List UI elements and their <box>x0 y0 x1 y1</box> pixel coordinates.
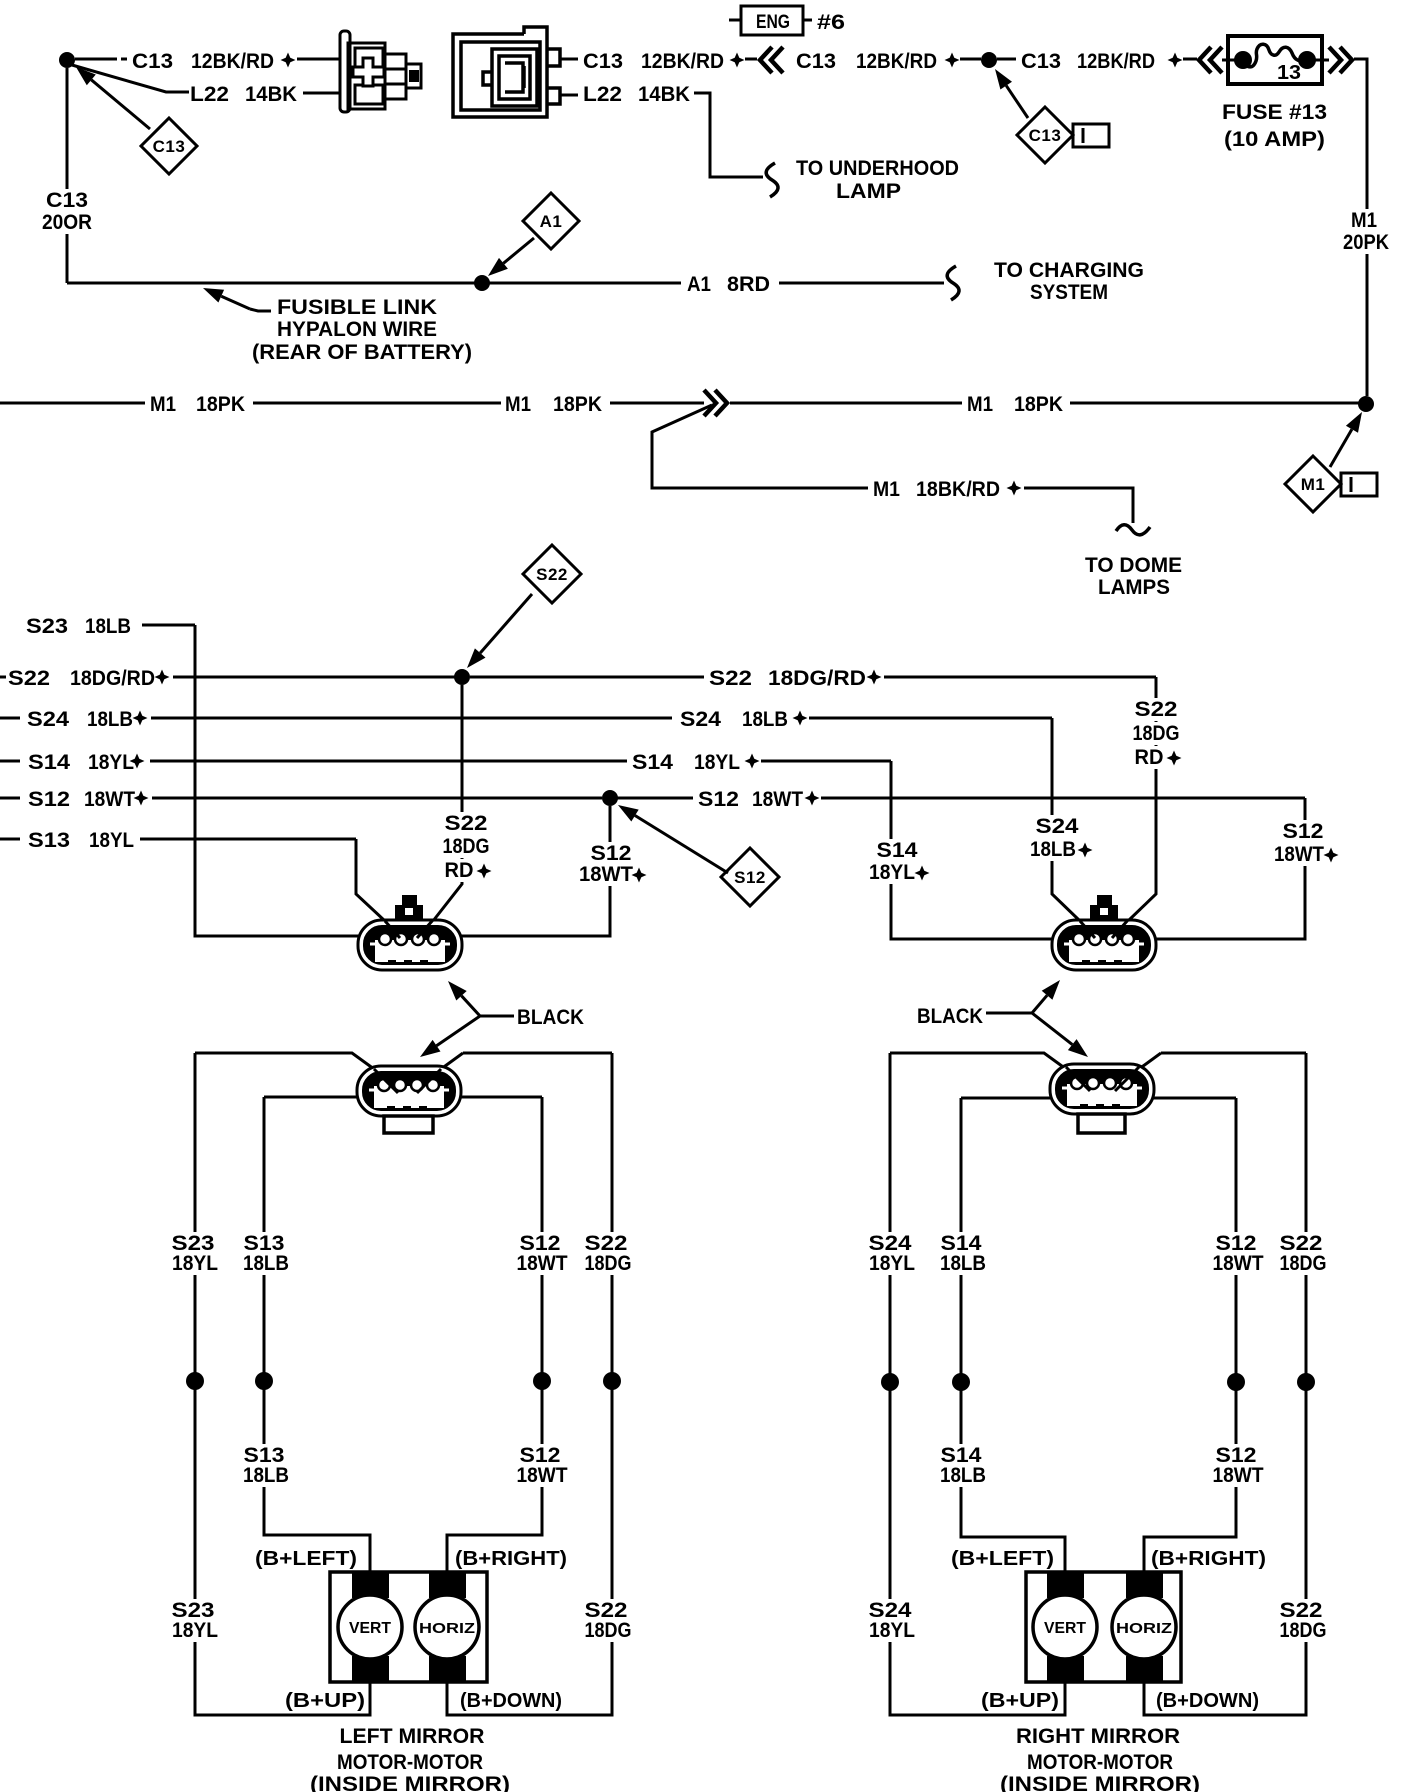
svg-text:18DG: 18DG <box>1133 722 1180 745</box>
connector callout M1 diamond with cavity box <box>1285 456 1341 512</box>
svg-text:18PK: 18PK <box>553 393 602 416</box>
connector B1R (mirror harness, right, black) <box>1090 905 1118 921</box>
svg-text:M1: M1 <box>967 393 993 416</box>
motor M-right (right mirror motor) <box>1026 1572 1181 1682</box>
leader arrow to S12 splice <box>618 805 728 873</box>
svg-text:13: 13 <box>1277 62 1301 84</box>
splice symbol <box>281 53 296 68</box>
motor M-left (left mirror motor) <box>330 1572 487 1682</box>
svg-text:L22: L22 <box>190 83 229 106</box>
motor VERT (right) <box>1033 1595 1097 1659</box>
svg-text:18PK: 18PK <box>1014 393 1063 416</box>
splice callout S22 diamond <box>523 545 581 603</box>
wire label S14 18YL (right drop) <box>872 839 921 862</box>
connector B2R (mirror side, right) <box>1050 1064 1154 1114</box>
wire S24 run to right drop <box>809 717 1052 720</box>
wire S22 run between splice and label <box>470 676 704 679</box>
svg-text:S13: S13 <box>28 829 70 852</box>
leader arrow to S22 splice <box>467 594 532 668</box>
node junction at C13 splice <box>981 52 997 68</box>
wire S13 18LB left inner drop <box>264 1097 370 1572</box>
svg-text:S24: S24 <box>1036 815 1079 838</box>
wire S23 18YL left outer drop <box>195 1053 370 1715</box>
connector tag ENG #6 <box>729 19 812 22</box>
svg-text:M1: M1 <box>873 478 900 501</box>
wire label S14 18LB column <box>936 1232 985 1255</box>
svg-text:(INSIDE MIRROR): (INSIDE MIRROR) <box>310 1773 510 1792</box>
leader arrow fusible link <box>203 288 250 309</box>
leader arrow to connector A lower <box>420 1016 480 1057</box>
wire label S24 18YL lower <box>864 1599 915 1622</box>
leader arrow to connector B upper <box>1032 980 1060 1013</box>
motor HORIZ (right) <box>1112 1595 1176 1659</box>
svg-text:(B+UP): (B+UP) <box>981 1690 1059 1712</box>
wire S24 drop to connector B <box>1052 718 1080 921</box>
svg-text:18WT: 18WT <box>517 1252 568 1275</box>
svg-text:S22: S22 <box>1135 698 1178 721</box>
svg-text:L22: L22 <box>583 83 622 106</box>
node junction M1 at fuse drop <box>1358 396 1374 412</box>
wire S24 18YL right outer drop <box>890 1053 1065 1715</box>
node junction S12 splice <box>602 790 618 806</box>
wire <box>745 58 757 61</box>
svg-text:A1: A1 <box>540 212 563 231</box>
wire to underhood lamp <box>694 93 763 177</box>
svg-text:18LB: 18LB <box>243 1464 289 1487</box>
connector A2L (mirror side, left) <box>357 1066 461 1116</box>
svg-text:C13: C13 <box>583 50 623 73</box>
wire S14 run to right drop <box>761 760 891 763</box>
svg-text:18LB: 18LB <box>940 1252 986 1275</box>
svg-text:RIGHT MIRROR: RIGHT MIRROR <box>1016 1725 1180 1748</box>
splice symbol <box>730 53 745 68</box>
svg-text:S22: S22 <box>709 667 752 690</box>
svg-text:RD: RD <box>445 859 474 882</box>
wire stub S13 18YL <box>0 838 20 841</box>
wire S14 18LB right inner drop <box>961 1098 1065 1572</box>
svg-text:S12: S12 <box>734 868 766 887</box>
wire S14 drop to connector B <box>891 761 1062 939</box>
wire label S12 18WT column <box>516 1232 565 1255</box>
wire label S22 18DG column <box>1276 1232 1327 1255</box>
svg-text:FUSE #13: FUSE #13 <box>1222 101 1327 124</box>
fuse element squiggle <box>1243 44 1307 67</box>
splice symbol <box>945 53 960 68</box>
svg-text:(10 AMP): (10 AMP) <box>1224 128 1325 151</box>
wire S12 drop to connector B <box>1146 798 1305 939</box>
svg-text:S12: S12 <box>591 842 632 865</box>
svg-text:LAMP: LAMP <box>836 180 901 203</box>
wire stub S22 18DG/RD <box>0 676 6 679</box>
svg-text:ENG: ENG <box>756 12 790 33</box>
svg-text:18WT: 18WT <box>579 863 633 886</box>
wire S23 drop to connector A <box>195 625 368 936</box>
svg-text:18WT: 18WT <box>517 1464 568 1487</box>
svg-text:18DG/RD: 18DG/RD <box>768 667 866 690</box>
svg-text:18YL: 18YL <box>172 1619 218 1642</box>
svg-text:18DG: 18DG <box>585 1619 632 1642</box>
svg-text:(B+DOWN): (B+DOWN) <box>460 1690 562 1712</box>
svg-text:18LB: 18LB <box>85 615 131 638</box>
wire label C13 20OR <box>42 189 92 212</box>
wire from fuse down to M1 line <box>1354 59 1367 396</box>
wire <box>960 58 981 61</box>
leader arrow to junction <box>995 69 1028 118</box>
leader arrow to junction <box>1330 412 1362 467</box>
wire S12 run to right drop <box>821 797 1305 800</box>
svg-text:HORIZ: HORIZ <box>419 1620 475 1637</box>
wire S13 drop to connector A <box>356 839 385 921</box>
svg-text:18LB: 18LB <box>1030 838 1076 861</box>
node splice at battery feed <box>59 52 75 68</box>
junction dot <box>186 1372 204 1390</box>
svg-text:14BK: 14BK <box>245 83 297 106</box>
svg-text:S14: S14 <box>877 839 918 862</box>
svg-text:14BK: 14BK <box>638 83 690 106</box>
wire M1 18BK/RD branch <box>652 405 868 488</box>
svg-text:M1: M1 <box>1301 475 1326 494</box>
svg-text:A1: A1 <box>687 273 711 296</box>
wire label S12 18WT (right drop) <box>1278 820 1327 843</box>
svg-text:18YL: 18YL <box>869 1252 915 1275</box>
in-line connector chevron (right) <box>1329 47 1352 73</box>
svg-text:#6: #6 <box>817 11 845 34</box>
wire stub from connector <box>560 94 578 97</box>
splice callout S12 diamond <box>721 848 779 906</box>
svg-text:S12: S12 <box>1283 820 1324 843</box>
svg-text:18WT: 18WT <box>1274 843 1324 866</box>
svg-text:M1: M1 <box>150 393 176 416</box>
in-line connector chevron (right) <box>704 390 727 416</box>
svg-text:FUSIBLE LINK: FUSIBLE LINK <box>277 296 437 319</box>
connector A1L (mirror harness, left, black) <box>395 905 423 921</box>
svg-text:18YL: 18YL <box>89 829 134 852</box>
svg-text:M1: M1 <box>505 393 531 416</box>
wire stub from connector <box>560 58 578 61</box>
svg-text:12BK/RD: 12BK/RD <box>1077 50 1155 73</box>
svg-text:18LB: 18LB <box>742 708 788 731</box>
wire S12 18WT left inner-right drop <box>447 1097 542 1572</box>
svg-text:C13: C13 <box>796 50 836 73</box>
svg-text:S22: S22 <box>8 667 50 690</box>
svg-text:(B+UP): (B+UP) <box>285 1690 365 1712</box>
wire M1 18PK main run <box>0 402 145 405</box>
junction dot <box>1227 1373 1245 1391</box>
wire dash from splice to C13 label <box>75 58 127 61</box>
svg-text:C13: C13 <box>153 137 186 156</box>
svg-text:S24: S24 <box>680 708 721 731</box>
svg-text:12BK/RD: 12BK/RD <box>191 50 274 73</box>
svg-text:18DG: 18DG <box>1280 1252 1327 1275</box>
fuse F13 (10 AMP) <box>1228 36 1322 84</box>
svg-text:18WT: 18WT <box>752 788 803 811</box>
wire label S22 18DG lower <box>1276 1599 1327 1622</box>
svg-text:C13: C13 <box>1029 126 1062 145</box>
svg-text:18DG/RD: 18DG/RD <box>70 667 155 690</box>
svg-text:18DG: 18DG <box>585 1252 632 1275</box>
wire <box>997 58 1016 61</box>
svg-text:18YL: 18YL <box>869 861 915 884</box>
svg-text:18WT: 18WT <box>1213 1252 1264 1275</box>
svg-text:(B+LEFT): (B+LEFT) <box>255 1548 357 1570</box>
svg-text:18YL: 18YL <box>88 751 134 774</box>
svg-text:18WT: 18WT <box>84 788 135 811</box>
wire to connector <box>303 92 340 95</box>
wire S13 18YL run <box>140 838 356 841</box>
wire label S23 18YL lower <box>168 1599 219 1622</box>
svg-text:TO DOME: TO DOME <box>1085 554 1182 577</box>
svg-text:18DG: 18DG <box>1280 1619 1327 1642</box>
svg-text:18DG: 18DG <box>443 835 490 858</box>
circuit-continues squiggle <box>1116 525 1150 535</box>
wire C13 20OR vertical <box>66 68 69 283</box>
circuit-continues squiggle <box>766 163 778 197</box>
svg-text:(B+LEFT): (B+LEFT) <box>951 1548 1054 1570</box>
svg-text:18WT: 18WT <box>1213 1464 1264 1487</box>
wire label S22 18DG RD (right drop) <box>1130 698 1181 721</box>
svg-text:(INSIDE MIRROR): (INSIDE MIRROR) <box>1000 1773 1200 1792</box>
svg-text:(B+DOWN): (B+DOWN) <box>1156 1690 1259 1712</box>
splice symbol <box>1168 53 1183 68</box>
svg-text:BLACK: BLACK <box>917 1005 983 1028</box>
wire S22 drop to connector B <box>1128 677 1156 921</box>
wire frame into connector B2R <box>890 1053 1066 1069</box>
wire label S13 18LB mid <box>240 1444 289 1467</box>
wire S22 18DG/RD run <box>173 676 458 679</box>
wire label S12 18WT mid <box>1212 1444 1261 1467</box>
node junction A1 tap <box>474 275 490 291</box>
wire S22 18DG right outer drop <box>1144 1053 1306 1715</box>
wire S22 run to right drop <box>884 676 1156 679</box>
svg-text:VERT: VERT <box>1044 1620 1086 1637</box>
wire to charging system <box>779 282 944 285</box>
svg-text:18YL: 18YL <box>694 751 740 774</box>
svg-text:M1: M1 <box>1351 209 1377 232</box>
svg-text:18YL: 18YL <box>172 1252 218 1275</box>
wire S14 18YL run <box>150 760 627 763</box>
motor VERT (left) <box>338 1595 402 1659</box>
svg-text:VERT: VERT <box>349 1620 391 1637</box>
svg-text:MOTOR-MOTOR: MOTOR-MOTOR <box>337 1751 483 1774</box>
leader arrow to junction <box>488 238 534 276</box>
motor HORIZ (left) <box>415 1595 479 1659</box>
junction dot <box>603 1372 621 1390</box>
svg-text:S12: S12 <box>28 788 70 811</box>
svg-text:C13: C13 <box>132 50 173 73</box>
connector (female half) <box>453 27 560 117</box>
wire label S24 18YL column <box>864 1232 915 1255</box>
circuit-continues squiggle <box>947 266 959 300</box>
svg-text:18PK: 18PK <box>196 393 245 416</box>
junction dot <box>255 1372 273 1390</box>
wire S22 18DG left outer-right drop <box>447 1053 612 1715</box>
svg-text:S14: S14 <box>28 751 70 774</box>
svg-text:C13: C13 <box>1021 50 1061 73</box>
svg-text:TO CHARGING: TO CHARGING <box>994 259 1144 282</box>
wire label S23 18YL column <box>168 1232 219 1255</box>
svg-text:(REAR OF BATTERY): (REAR OF BATTERY) <box>252 341 472 364</box>
svg-text:C13: C13 <box>46 189 88 212</box>
wire A1 8RD from splice <box>67 282 681 285</box>
wire S12 between dot and label <box>613 797 693 800</box>
circuit callout A1 diamond <box>523 193 579 249</box>
junction dot <box>952 1373 970 1391</box>
wire stub S12 18WT <box>0 797 20 800</box>
junction dot <box>533 1372 551 1390</box>
leader arrow to connector B lower <box>1032 1013 1088 1057</box>
svg-text:RD: RD <box>1135 746 1164 769</box>
wire stub S24 18LB <box>0 717 20 720</box>
svg-text:S23: S23 <box>26 615 68 638</box>
svg-text:LAMPS: LAMPS <box>1098 576 1170 599</box>
wire S23 18LB run <box>142 624 195 627</box>
svg-text:S12: S12 <box>698 788 739 811</box>
connector callout C13 diamond with cavity box (right) <box>1017 107 1073 163</box>
wire S12 18WT run <box>152 797 602 800</box>
svg-text:HYPALON WIRE: HYPALON WIRE <box>277 318 437 341</box>
svg-text:SYSTEM: SYSTEM <box>1030 281 1108 304</box>
svg-text:S22: S22 <box>536 565 568 584</box>
wire label S22 18DG RD <box>440 812 491 835</box>
wire S24 18LB run <box>151 717 672 720</box>
wire label S22 18DG column <box>580 1232 631 1255</box>
leader line to L22 label <box>72 65 189 92</box>
wire stub S14 18YL <box>0 760 20 763</box>
svg-text:20OR: 20OR <box>42 211 92 234</box>
wire label M1 20PK <box>1347 209 1381 232</box>
wire label S12 18WT (left drop) <box>586 842 635 865</box>
svg-text:BLACK: BLACK <box>517 1006 584 1029</box>
junction dot <box>881 1373 899 1391</box>
svg-text:S22: S22 <box>445 812 488 835</box>
svg-text:(B+RIGHT): (B+RIGHT) <box>455 1548 567 1570</box>
svg-text:18LB: 18LB <box>940 1464 986 1487</box>
svg-text:12BK/RD: 12BK/RD <box>641 50 724 73</box>
wire to connector <box>297 58 340 61</box>
wire label S22 18DG lower <box>580 1599 631 1622</box>
svg-text:S24: S24 <box>27 708 69 731</box>
svg-text:8RD: 8RD <box>727 273 770 296</box>
leader arrow to splice node <box>76 67 150 129</box>
wire label S12 18WT column <box>1212 1232 1261 1255</box>
wire <box>1183 58 1197 61</box>
svg-text:20PK: 20PK <box>1343 231 1389 254</box>
connector (male half) near battery <box>340 31 421 112</box>
wire S12 drop to connector A <box>452 806 610 936</box>
leader arrow to connector A upper <box>448 981 480 1016</box>
junction dot <box>1297 1373 1315 1391</box>
svg-text:S14: S14 <box>632 751 673 774</box>
svg-text:HORIZ: HORIZ <box>1116 1620 1172 1637</box>
svg-text:MOTOR-MOTOR: MOTOR-MOTOR <box>1027 1751 1173 1774</box>
svg-text:LEFT MIRROR: LEFT MIRROR <box>340 1725 485 1748</box>
wire S22 drop to connector A <box>433 685 462 921</box>
wire label S12 18WT mid <box>516 1444 565 1467</box>
svg-text:18LB: 18LB <box>243 1252 289 1275</box>
svg-text:12BK/RD: 12BK/RD <box>856 50 937 73</box>
svg-text:(B+RIGHT): (B+RIGHT) <box>1151 1548 1266 1570</box>
wire label S24 18LB (right drop) <box>1032 815 1083 838</box>
in-line connector chevron (left) <box>760 47 783 73</box>
connector callout C13 diamond (left) <box>141 118 197 174</box>
wire S12 18WT right inner drop <box>1144 1098 1236 1572</box>
wire to dome lamps <box>1024 488 1133 523</box>
svg-text:18BK/RD: 18BK/RD <box>916 478 1000 501</box>
in-line connector chevron (left) <box>1199 47 1222 73</box>
node junction S22 splice <box>454 669 470 685</box>
wire frame into connector A2L <box>195 1053 374 1069</box>
svg-text:18YL: 18YL <box>869 1619 915 1642</box>
svg-text:TO UNDERHOOD: TO UNDERHOOD <box>796 157 959 180</box>
svg-text:18LB: 18LB <box>87 708 133 731</box>
wire label S13 18LB column <box>240 1232 289 1255</box>
wire label S14 18LB mid <box>936 1444 985 1467</box>
